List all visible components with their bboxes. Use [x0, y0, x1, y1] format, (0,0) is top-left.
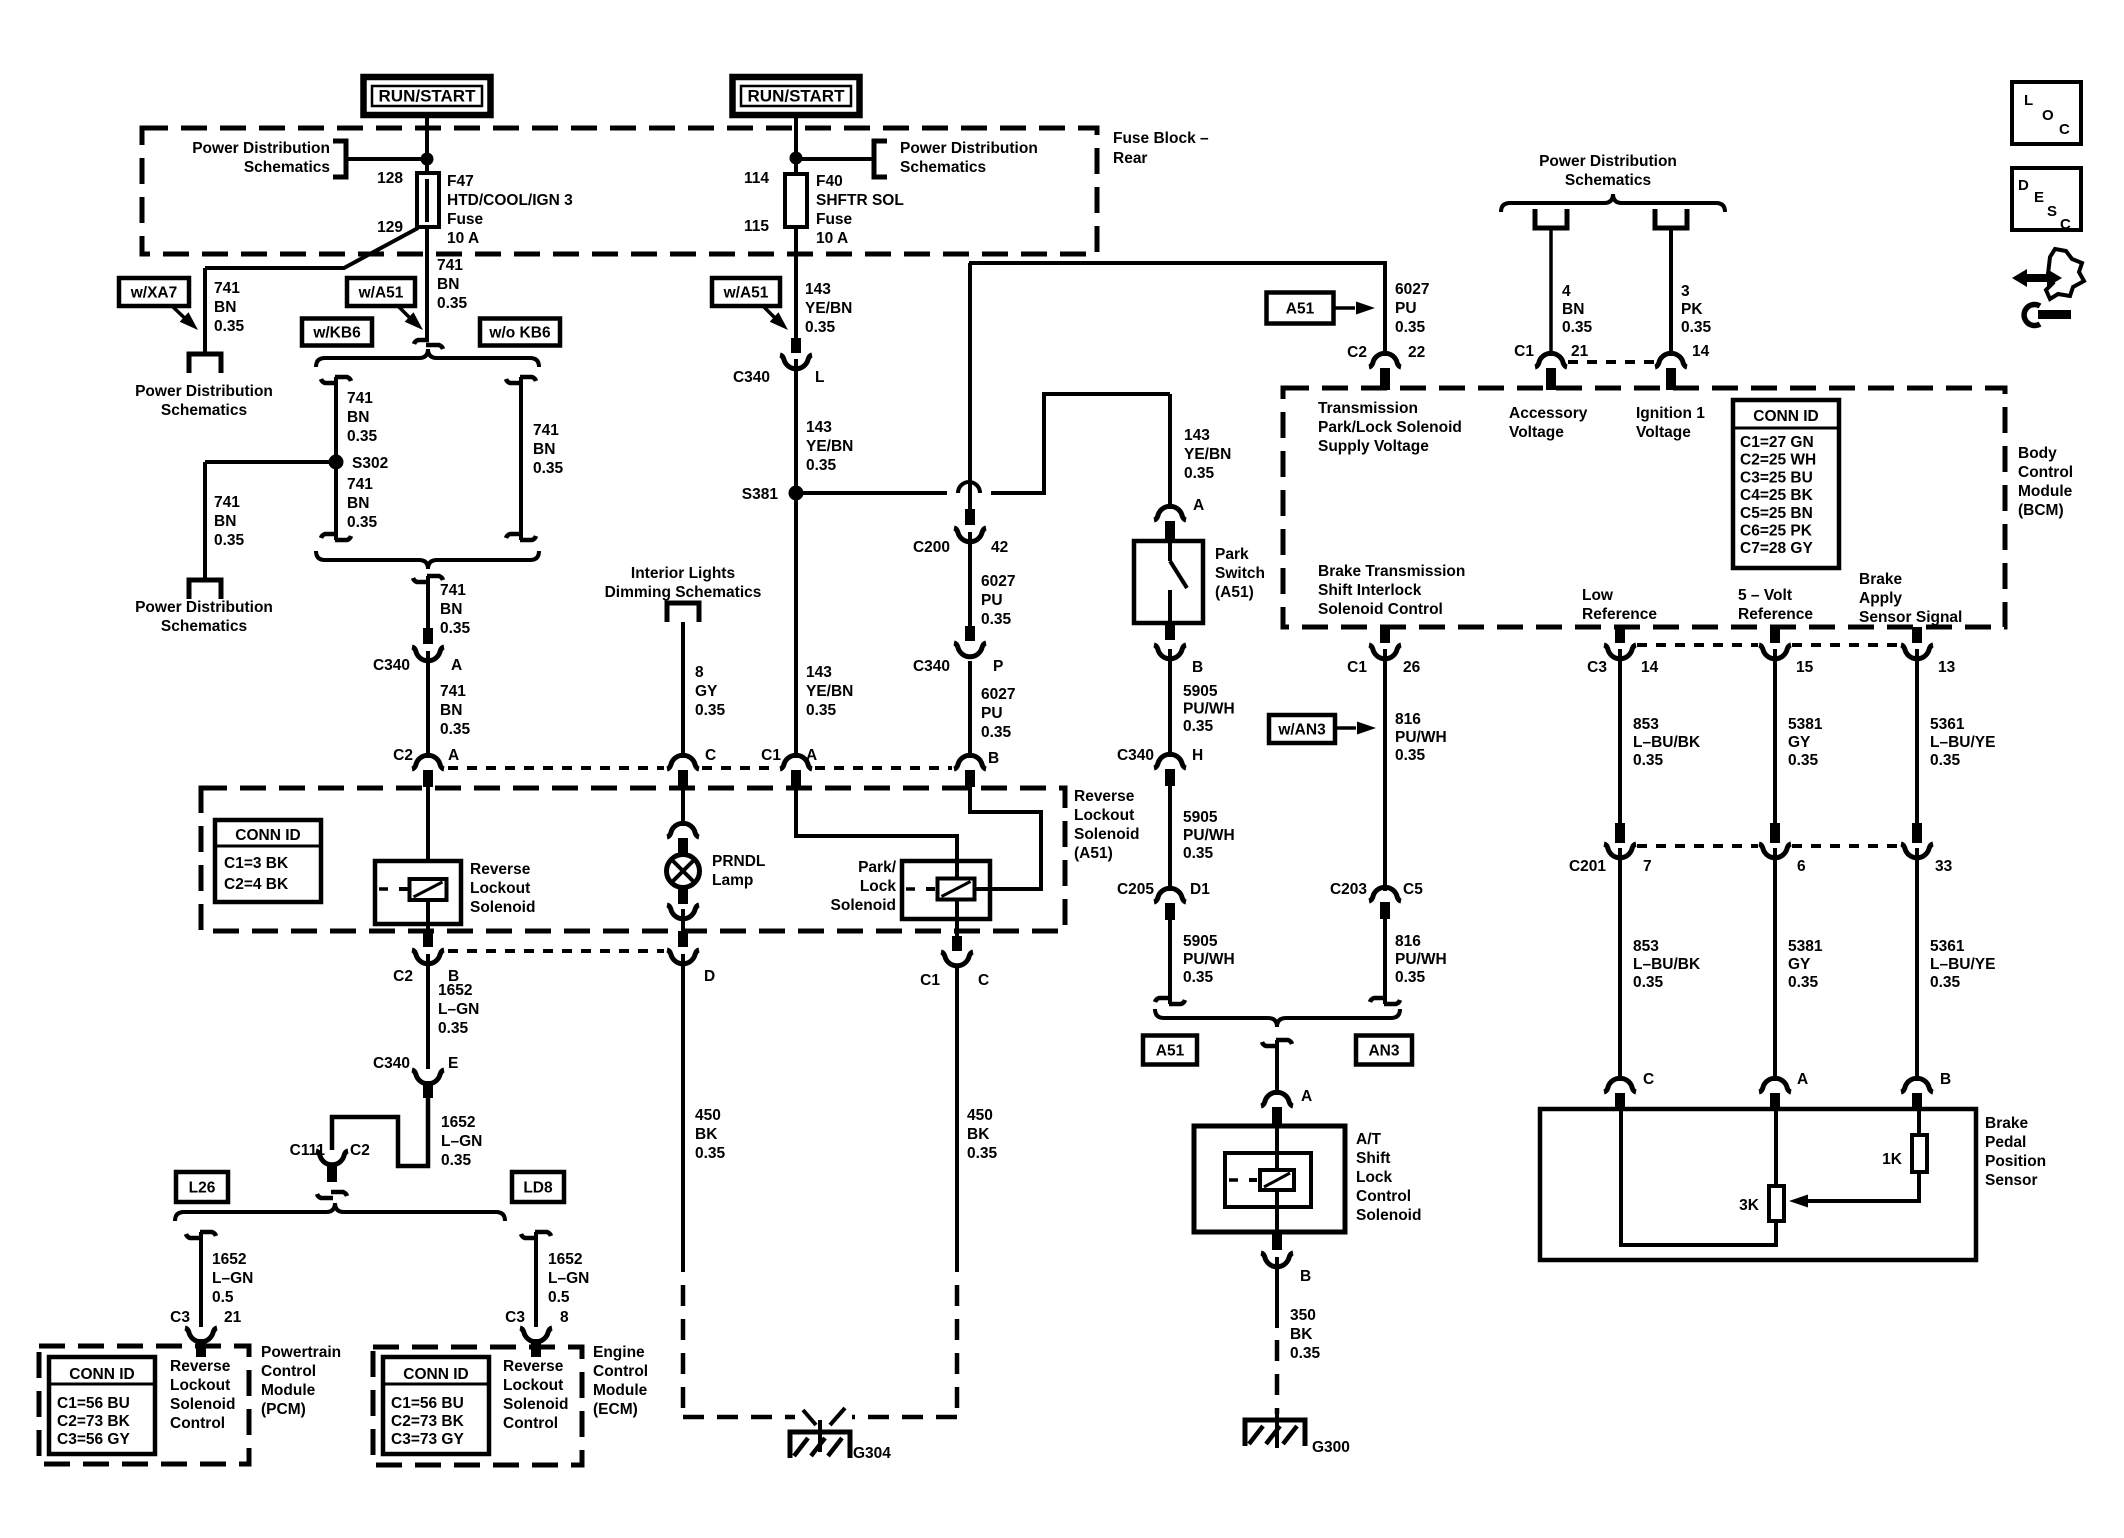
svg-text:816: 816 [1395, 933, 1421, 950]
svg-text:GY: GY [1788, 734, 1811, 751]
svg-text:Park/Lock Solenoid: Park/Lock Solenoid [1318, 419, 1462, 436]
svg-text:L–BU/BK: L–BU/BK [1633, 734, 1701, 751]
svg-text:C1=56 BU: C1=56 BU [57, 1395, 130, 1412]
svg-text:741: 741 [440, 582, 466, 599]
svg-text:Switch: Switch [1215, 565, 1265, 582]
svg-text:PK: PK [1681, 301, 1703, 318]
svg-text:Fuse: Fuse [816, 211, 853, 228]
svg-text:Powertrain: Powertrain [261, 1344, 341, 1361]
svg-text:PRNDL: PRNDL [712, 853, 765, 870]
svg-text:C3=25 BU: C3=25 BU [1740, 469, 1813, 486]
svg-text:0.35: 0.35 [437, 295, 468, 312]
svg-text:Solenoid: Solenoid [1356, 1207, 1421, 1224]
svg-text:5 – Volt: 5 – Volt [1738, 587, 1792, 604]
svg-text:5905: 5905 [1183, 933, 1218, 950]
svg-text:Lockout: Lockout [170, 1377, 230, 1394]
svg-text:741: 741 [214, 280, 240, 297]
svg-text:F40: F40 [816, 173, 843, 190]
svg-text:C1=3 BK: C1=3 BK [224, 855, 289, 872]
svg-text:Body: Body [2018, 445, 2057, 462]
svg-text:Solenoid: Solenoid [170, 1396, 235, 1413]
svg-text:BK: BK [967, 1126, 990, 1143]
svg-text:L–GN: L–GN [548, 1270, 589, 1287]
svg-text:741: 741 [440, 683, 466, 700]
svg-text:SHFTR SOL: SHFTR SOL [816, 192, 904, 209]
svg-text:1652: 1652 [438, 982, 472, 999]
svg-text:(PCM): (PCM) [261, 1401, 306, 1418]
svg-text:853: 853 [1633, 938, 1659, 955]
svg-text:1K: 1K [1882, 1151, 1903, 1168]
svg-text:C201: C201 [1569, 858, 1606, 875]
svg-text:Brake: Brake [1985, 1115, 2028, 1132]
svg-text:129: 129 [377, 219, 403, 236]
svg-text:w/AN3: w/AN3 [1277, 722, 1326, 739]
svg-text:C2: C2 [1347, 344, 1367, 361]
svg-text:BN: BN [347, 495, 369, 512]
svg-text:w/A51: w/A51 [723, 285, 769, 302]
svg-text:Schematics: Schematics [161, 618, 247, 635]
svg-text:H: H [1192, 747, 1203, 764]
svg-text:8: 8 [695, 664, 704, 681]
svg-text:1652: 1652 [212, 1251, 246, 1268]
svg-text:C3=73 GY: C3=73 GY [391, 1431, 464, 1448]
svg-text:B: B [1940, 1071, 1951, 1088]
svg-text:O: O [2042, 107, 2054, 124]
svg-text:AN3: AN3 [1368, 1043, 1399, 1060]
svg-text:Solenoid: Solenoid [1074, 826, 1139, 843]
svg-text:741: 741 [347, 390, 373, 407]
svg-text:5905: 5905 [1183, 809, 1218, 826]
svg-text:E: E [2034, 189, 2044, 206]
svg-text:C4=25 BK: C4=25 BK [1740, 487, 1814, 504]
svg-text:GY: GY [695, 683, 718, 700]
svg-text:BN: BN [533, 441, 555, 458]
svg-text:BN: BN [214, 299, 236, 316]
svg-text:Solenoid: Solenoid [503, 1396, 568, 1413]
svg-text:21: 21 [224, 1309, 242, 1326]
svg-text:Schematics: Schematics [244, 159, 330, 176]
svg-text:0.35: 0.35 [806, 457, 837, 474]
svg-text:0.35: 0.35 [1183, 969, 1214, 986]
svg-text:Power Distribution: Power Distribution [192, 140, 330, 157]
svg-text:143: 143 [805, 281, 831, 298]
svg-text:w/XA7: w/XA7 [130, 285, 178, 302]
svg-text:8: 8 [560, 1309, 569, 1326]
svg-text:YE/BN: YE/BN [805, 300, 852, 317]
svg-text:0.35: 0.35 [1395, 747, 1426, 764]
svg-text:C3: C3 [505, 1309, 525, 1326]
svg-text:C1: C1 [1514, 343, 1534, 360]
svg-text:Control: Control [593, 1363, 648, 1380]
svg-text:B: B [1300, 1268, 1311, 1285]
svg-text:C2: C2 [350, 1142, 370, 1159]
svg-text:BK: BK [695, 1126, 718, 1143]
svg-text:0.35: 0.35 [1681, 319, 1712, 336]
svg-text:0.35: 0.35 [1633, 752, 1664, 769]
svg-text:5381: 5381 [1788, 716, 1823, 733]
svg-text:42: 42 [991, 539, 1008, 556]
svg-text:BN: BN [1562, 301, 1584, 318]
svg-text:S381: S381 [742, 486, 779, 503]
svg-text:G300: G300 [1312, 1439, 1350, 1456]
svg-text:143: 143 [806, 664, 832, 681]
svg-text:0.35: 0.35 [1290, 1345, 1321, 1362]
svg-text:6: 6 [1797, 858, 1806, 875]
svg-text:(BCM): (BCM) [2018, 502, 2064, 519]
svg-text:Supply Voltage: Supply Voltage [1318, 438, 1429, 455]
svg-text:BN: BN [440, 702, 462, 719]
svg-text:Schematics: Schematics [161, 402, 247, 419]
svg-text:Module: Module [261, 1382, 316, 1399]
svg-text:Rear: Rear [1113, 150, 1147, 167]
svg-text:L–GN: L–GN [441, 1133, 482, 1150]
svg-text:Voltage: Voltage [1636, 424, 1691, 441]
svg-text:114: 114 [744, 170, 769, 187]
svg-text:Fuse Block –: Fuse Block – [1113, 130, 1209, 147]
svg-text:BN: BN [437, 276, 459, 293]
svg-text:GY: GY [1788, 956, 1811, 973]
svg-text:10 A: 10 A [816, 230, 848, 247]
svg-text:(A51): (A51) [1215, 584, 1254, 601]
svg-text:Control: Control [2018, 464, 2073, 481]
svg-text:S: S [2047, 203, 2057, 220]
svg-text:C: C [1643, 1071, 1654, 1088]
svg-text:Module: Module [2018, 483, 2073, 500]
svg-text:C340: C340 [1117, 747, 1154, 764]
svg-text:Interior Lights: Interior Lights [631, 565, 735, 582]
svg-text:PU/WH: PU/WH [1395, 729, 1447, 746]
svg-text:C: C [2060, 216, 2071, 233]
svg-text:0.35: 0.35 [1788, 974, 1819, 991]
svg-text:350: 350 [1290, 1307, 1316, 1324]
svg-text:3: 3 [1681, 283, 1690, 300]
svg-text:Pedal: Pedal [1985, 1134, 2026, 1151]
svg-text:816: 816 [1395, 711, 1421, 728]
svg-text:0.35: 0.35 [214, 318, 245, 335]
svg-text:CONN ID: CONN ID [1753, 408, 1818, 425]
svg-text:0.35: 0.35 [981, 611, 1012, 628]
svg-text:L–GN: L–GN [212, 1270, 253, 1287]
svg-text:Schematics: Schematics [900, 159, 986, 176]
svg-text:33: 33 [1935, 858, 1953, 875]
svg-text:A51: A51 [1286, 301, 1315, 318]
svg-text:L–GN: L–GN [438, 1001, 479, 1018]
svg-text:10 A: 10 A [447, 230, 479, 247]
svg-text:A: A [448, 747, 459, 764]
svg-text:5381: 5381 [1788, 938, 1823, 955]
svg-text:C340: C340 [913, 658, 950, 675]
svg-text:L–BU/YE: L–BU/YE [1930, 956, 1995, 973]
svg-text:Control: Control [503, 1415, 558, 1432]
svg-text:0.35: 0.35 [695, 1145, 726, 1162]
svg-text:PU: PU [1395, 300, 1417, 317]
svg-text:Solenoid Control: Solenoid Control [1318, 601, 1443, 618]
svg-text:Power Distribution: Power Distribution [135, 599, 273, 616]
svg-text:Dimming Schematics: Dimming Schematics [605, 584, 762, 601]
svg-text:0.35: 0.35 [1562, 319, 1593, 336]
svg-text:1652: 1652 [441, 1114, 475, 1131]
svg-text:C340: C340 [733, 369, 770, 386]
svg-text:C2=25 WH: C2=25 WH [1740, 452, 1816, 469]
svg-text:0.35: 0.35 [440, 620, 471, 637]
svg-text:0.35: 0.35 [347, 514, 378, 531]
svg-text:Brake: Brake [1859, 571, 1902, 588]
svg-text:Park/: Park/ [858, 859, 897, 876]
svg-text:Position: Position [1985, 1153, 2046, 1170]
svg-text:Accessory: Accessory [1509, 405, 1588, 422]
svg-text:C: C [978, 972, 989, 989]
svg-text:C340: C340 [373, 1055, 410, 1072]
svg-text:0.35: 0.35 [1788, 752, 1819, 769]
svg-text:Control: Control [261, 1363, 316, 1380]
svg-text:PU/WH: PU/WH [1395, 951, 1447, 968]
svg-text:Park: Park [1215, 546, 1249, 563]
svg-text:D1: D1 [1190, 881, 1210, 898]
svg-text:C: C [2059, 121, 2070, 138]
svg-text:A: A [1797, 1071, 1808, 1088]
svg-text:LD8: LD8 [523, 1180, 553, 1197]
svg-text:0.35: 0.35 [695, 702, 726, 719]
svg-text:S302: S302 [352, 455, 388, 472]
svg-text:7: 7 [1643, 858, 1652, 875]
svg-text:B: B [988, 750, 999, 767]
svg-text:C2=4 BK: C2=4 BK [224, 876, 289, 893]
svg-text:450: 450 [695, 1107, 721, 1124]
svg-text:Reverse: Reverse [503, 1358, 564, 1375]
svg-text:5361: 5361 [1930, 938, 1965, 955]
svg-text:115: 115 [744, 218, 769, 235]
svg-text:Reference: Reference [1582, 606, 1657, 623]
svg-text:14: 14 [1692, 343, 1710, 360]
svg-text:15: 15 [1796, 659, 1814, 676]
svg-text:Lamp: Lamp [712, 872, 753, 889]
svg-text:5905: 5905 [1183, 683, 1218, 700]
svg-text:14: 14 [1641, 659, 1659, 676]
svg-text:Lockout: Lockout [503, 1377, 563, 1394]
svg-text:C1: C1 [761, 747, 781, 764]
svg-text:(ECM): (ECM) [593, 1401, 638, 1418]
svg-text:RUN/START: RUN/START [748, 87, 846, 106]
svg-text:P: P [993, 658, 1003, 675]
svg-text:Module: Module [593, 1382, 648, 1399]
svg-text:D: D [704, 968, 715, 985]
svg-text:853: 853 [1633, 716, 1659, 733]
svg-text:0.35: 0.35 [1184, 465, 1215, 482]
svg-text:0.35: 0.35 [1183, 845, 1214, 862]
svg-text:1652: 1652 [548, 1251, 582, 1268]
svg-text:22: 22 [1408, 344, 1425, 361]
svg-text:Engine: Engine [593, 1344, 645, 1361]
svg-text:Lockout: Lockout [470, 880, 530, 897]
svg-text:Reference: Reference [1738, 606, 1813, 623]
svg-text:Reverse: Reverse [470, 861, 531, 878]
svg-text:Power Distribution: Power Distribution [900, 140, 1038, 157]
svg-text:F47: F47 [447, 173, 474, 190]
svg-text:0.35: 0.35 [1395, 969, 1426, 986]
svg-text:0.5: 0.5 [548, 1289, 570, 1306]
svg-text:A: A [1301, 1088, 1312, 1105]
svg-text:3K: 3K [1739, 1197, 1760, 1214]
svg-text:L: L [2024, 92, 2033, 109]
svg-text:Reverse: Reverse [1074, 788, 1135, 805]
svg-text:A/T: A/T [1356, 1131, 1382, 1148]
svg-text:C6=25 PK: C6=25 PK [1740, 523, 1813, 540]
svg-text:Lock: Lock [1356, 1169, 1393, 1186]
svg-text:128: 128 [377, 170, 403, 187]
svg-text:HTD/COOL/IGN 3: HTD/COOL/IGN 3 [447, 192, 573, 209]
svg-text:Solenoid: Solenoid [831, 897, 896, 914]
svg-text:0.5: 0.5 [212, 1289, 234, 1306]
svg-text:Lock: Lock [860, 878, 897, 895]
svg-text:YE/BN: YE/BN [1184, 446, 1231, 463]
svg-text:0.35: 0.35 [533, 460, 564, 477]
svg-text:Transmission: Transmission [1318, 400, 1418, 417]
svg-text:0.35: 0.35 [806, 702, 837, 719]
svg-text:C1=56 BU: C1=56 BU [391, 1395, 464, 1412]
svg-text:0.35: 0.35 [441, 1152, 472, 1169]
svg-text:C2=73 BK: C2=73 BK [391, 1413, 465, 1430]
svg-text:Power Distribution: Power Distribution [135, 383, 273, 400]
svg-text:RUN/START: RUN/START [379, 87, 477, 106]
svg-text:C7=28 GY: C7=28 GY [1740, 540, 1813, 557]
svg-text:741: 741 [437, 257, 463, 274]
svg-text:0.35: 0.35 [347, 428, 378, 445]
svg-text:5361: 5361 [1930, 716, 1965, 733]
svg-text:L: L [815, 369, 824, 386]
svg-text:Brake Transmission: Brake Transmission [1318, 563, 1465, 580]
svg-text:YE/BN: YE/BN [806, 683, 853, 700]
svg-text:A: A [1193, 497, 1204, 514]
svg-text:L26: L26 [189, 1180, 216, 1197]
svg-text:0.35: 0.35 [805, 319, 836, 336]
svg-text:4: 4 [1562, 283, 1571, 300]
svg-text:BN: BN [440, 601, 462, 618]
svg-text:0.35: 0.35 [967, 1145, 998, 1162]
svg-text:Shift: Shift [1356, 1150, 1390, 1167]
svg-text:PU/WH: PU/WH [1183, 827, 1235, 844]
svg-text:Sensor Signal: Sensor Signal [1859, 609, 1962, 626]
svg-text:C200: C200 [913, 539, 950, 556]
svg-text:A51: A51 [1156, 1043, 1185, 1060]
svg-text:BN: BN [347, 409, 369, 426]
svg-text:0.35: 0.35 [214, 532, 245, 549]
svg-text:Low: Low [1582, 587, 1614, 604]
svg-text:C1: C1 [920, 972, 940, 989]
svg-text:C1: C1 [1347, 659, 1367, 676]
svg-text:0.35: 0.35 [1633, 974, 1664, 991]
svg-text:6027: 6027 [1395, 281, 1429, 298]
svg-text:C3: C3 [1587, 659, 1607, 676]
svg-text:Apply: Apply [1859, 590, 1902, 607]
svg-text:CONN ID: CONN ID [403, 1366, 468, 1383]
svg-text:143: 143 [806, 419, 832, 436]
svg-text:26: 26 [1403, 659, 1421, 676]
svg-text:Fuse: Fuse [447, 211, 484, 228]
svg-text:Ignition 1: Ignition 1 [1636, 405, 1705, 422]
svg-text:PU/WH: PU/WH [1183, 701, 1235, 718]
svg-text:C340: C340 [373, 657, 410, 674]
svg-text:Sensor: Sensor [1985, 1172, 2038, 1189]
svg-text:C1=27 GN: C1=27 GN [1740, 434, 1814, 451]
svg-text:Control: Control [1356, 1188, 1411, 1205]
svg-text:Reverse: Reverse [170, 1358, 231, 1375]
svg-text:Solenoid: Solenoid [470, 899, 535, 916]
svg-text:C5=25 BN: C5=25 BN [1740, 505, 1813, 522]
svg-text:D: D [2018, 177, 2029, 194]
svg-text:0.35: 0.35 [1930, 974, 1961, 991]
svg-text:PU/WH: PU/WH [1183, 951, 1235, 968]
svg-text:0.35: 0.35 [438, 1020, 469, 1037]
svg-text:E: E [448, 1055, 458, 1072]
svg-text:CONN ID: CONN ID [69, 1366, 134, 1383]
svg-text:w/o KB6: w/o KB6 [488, 325, 551, 342]
svg-text:0.35: 0.35 [1395, 319, 1426, 336]
svg-text:G304: G304 [853, 1445, 891, 1462]
svg-text:B: B [1192, 659, 1203, 676]
svg-text:143: 143 [1184, 427, 1210, 444]
svg-text:C203: C203 [1330, 881, 1367, 898]
svg-text:0.35: 0.35 [1183, 718, 1214, 735]
svg-text:6027: 6027 [981, 573, 1015, 590]
svg-text:C2: C2 [393, 968, 413, 985]
svg-text:0.35: 0.35 [1930, 752, 1961, 769]
svg-text:Voltage: Voltage [1509, 424, 1564, 441]
svg-text:BK: BK [1290, 1326, 1313, 1343]
svg-text:741: 741 [533, 422, 559, 439]
svg-text:C3=56 GY: C3=56 GY [57, 1431, 130, 1448]
svg-text:C3: C3 [170, 1309, 190, 1326]
svg-text:6027: 6027 [981, 686, 1015, 703]
svg-text:Control: Control [170, 1415, 225, 1432]
svg-text:A: A [451, 657, 462, 674]
svg-text:YE/BN: YE/BN [806, 438, 853, 455]
svg-text:Lockout: Lockout [1074, 807, 1134, 824]
svg-text:C205: C205 [1117, 881, 1154, 898]
svg-text:PU: PU [981, 705, 1003, 722]
svg-text:450: 450 [967, 1107, 993, 1124]
svg-text:0.35: 0.35 [440, 721, 471, 738]
svg-text:L–BU/BK: L–BU/BK [1633, 956, 1701, 973]
svg-text:Schematics: Schematics [1565, 172, 1651, 189]
svg-text:C5: C5 [1403, 881, 1423, 898]
svg-text:Shift Interlock: Shift Interlock [1318, 582, 1422, 599]
svg-text:C2=73 BK: C2=73 BK [57, 1413, 131, 1430]
svg-text:w/A51: w/A51 [358, 285, 404, 302]
svg-text:w/KB6: w/KB6 [312, 325, 361, 342]
svg-text:C: C [705, 747, 716, 764]
svg-text:Power Distribution: Power Distribution [1539, 153, 1677, 170]
svg-text:BN: BN [214, 513, 236, 530]
svg-text:0.35: 0.35 [981, 724, 1012, 741]
svg-text:13: 13 [1938, 659, 1956, 676]
svg-text:21: 21 [1571, 343, 1589, 360]
svg-text:PU: PU [981, 592, 1003, 609]
svg-text:(A51): (A51) [1074, 845, 1113, 862]
svg-text:741: 741 [347, 476, 373, 493]
svg-text:L–BU/YE: L–BU/YE [1930, 734, 1995, 751]
svg-text:741: 741 [214, 494, 240, 511]
svg-text:CONN ID: CONN ID [235, 827, 300, 844]
svg-text:C2: C2 [393, 747, 413, 764]
